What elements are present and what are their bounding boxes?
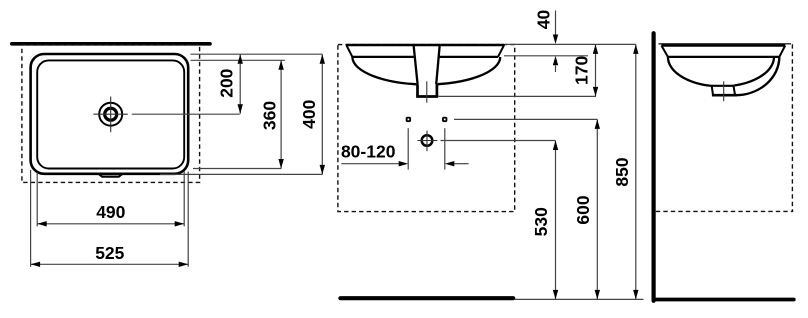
svg-text:600: 600 [573,195,593,224]
svg-text:490: 490 [96,202,125,222]
svg-text:850: 850 [612,157,632,186]
svg-text:200: 200 [217,68,237,97]
svg-text:360: 360 [259,101,279,130]
svg-text:530: 530 [531,207,551,236]
svg-text:170: 170 [571,56,591,85]
svg-text:525: 525 [95,243,124,263]
svg-text:40: 40 [534,10,554,30]
svg-text:400: 400 [299,99,319,128]
svg-text:80-120: 80-120 [341,141,396,161]
